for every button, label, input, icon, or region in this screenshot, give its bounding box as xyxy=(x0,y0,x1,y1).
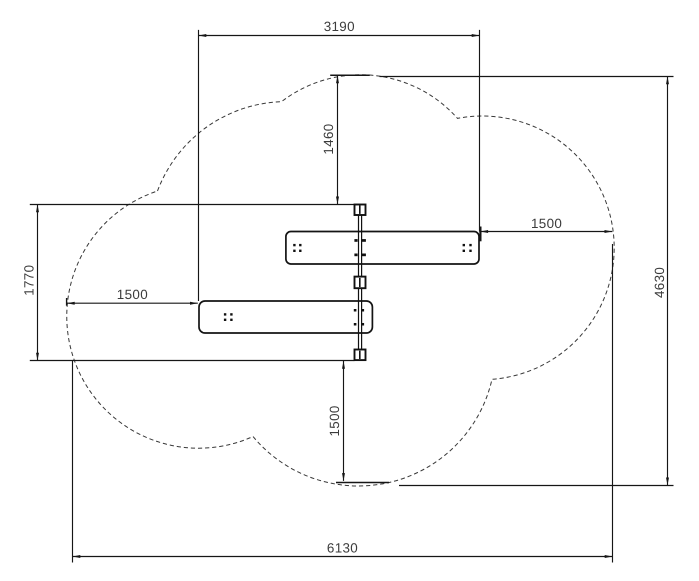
extension line equipment bottom edge at left (1770 bottom) xyxy=(30,360,355,362)
dimension 1460 vertical xyxy=(321,76,339,205)
beam left line xyxy=(358,215,360,350)
svg-text:1500: 1500 xyxy=(531,216,562,231)
svg-text:1770: 1770 xyxy=(22,265,37,296)
upper bench xyxy=(286,232,479,265)
svg-text:1460: 1460 xyxy=(321,123,336,154)
lower bench xyxy=(199,301,372,333)
extension line equipment top edge at left (1770 top) xyxy=(30,204,355,206)
upper bench beam ticks xyxy=(354,239,357,242)
dimension 3190 top xyxy=(199,19,480,37)
beam bottom connector square xyxy=(355,350,366,361)
dimension 4630 right vertical xyxy=(652,77,669,486)
extension line right of top dim 3190 xyxy=(479,30,481,232)
svg-text:1500: 1500 xyxy=(117,287,148,302)
bottom extension line for 4630 xyxy=(399,485,674,487)
right extension line for 6130 xyxy=(612,244,614,563)
dimension 1500 bottom vertical xyxy=(327,361,345,481)
dimension 1500 left xyxy=(67,287,198,306)
dimension 6130 bottom xyxy=(73,540,613,558)
beam top connector square xyxy=(355,205,366,216)
bottom object mark above cloud bottom xyxy=(336,482,389,484)
svg-text:3190: 3190 xyxy=(324,19,355,34)
beam right line xyxy=(361,215,363,350)
left extension line for 6130 xyxy=(72,361,74,563)
beam top object mark xyxy=(330,74,370,76)
beam middle connector square xyxy=(355,277,366,289)
lower bench beam ticks xyxy=(354,309,357,312)
upper bench left dots xyxy=(293,244,295,246)
extension line left of top dim 3190 xyxy=(198,30,200,301)
top extension line for 4630 xyxy=(380,76,674,78)
upper bench right dots xyxy=(463,244,465,246)
dimension 1500 right xyxy=(480,216,612,241)
lower bench left dots xyxy=(224,313,226,315)
svg-text:6130: 6130 xyxy=(327,540,358,555)
dimension 1770 left vertical xyxy=(22,205,39,361)
svg-text:4630: 4630 xyxy=(652,267,667,298)
svg-text:1500: 1500 xyxy=(327,405,342,436)
safety zone cloud boundary (dashed) xyxy=(67,75,614,486)
